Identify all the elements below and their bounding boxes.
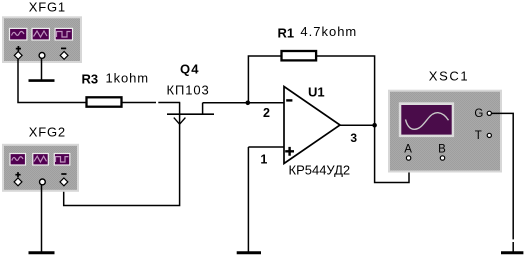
wire Q4 drain to op-amp pin 2	[203, 102, 284, 104]
wire XFG2 common to ground	[41, 185, 43, 252]
svg-text:XFG2: XFG2	[29, 124, 66, 139]
function generator XFG1	[2, 16, 82, 63]
svg-text:Q4: Q4	[180, 62, 200, 77]
svg-text:R1: R1	[278, 26, 295, 41]
wire op-amp pin 1	[248, 146, 284, 148]
junction node (output)	[372, 123, 377, 128]
ground (op-amp pin 1)	[237, 251, 261, 254]
svg-text:2: 2	[263, 106, 270, 120]
svg-text:G: G	[474, 108, 483, 120]
wire XFG1 plus to R3	[18, 60, 86, 103]
ground (XFG2)	[29, 251, 55, 254]
wire pin 1 to ground	[247, 147, 249, 252]
op-amp U1	[284, 87, 340, 164]
ground (XFG1)	[29, 79, 55, 82]
junction node (drain / R1)	[246, 101, 251, 106]
svg-text:1kohm: 1kohm	[106, 70, 150, 85]
wire XSC1 G to ground	[492, 113, 514, 251]
svg-text:XFG1: XFG1	[29, 0, 66, 15]
wire XFG1 common to ground	[41, 59, 43, 81]
oscilloscope XSC1	[388, 90, 502, 173]
svg-text:1: 1	[260, 152, 267, 166]
transistor Q4	[167, 103, 214, 125]
svg-text:КП103: КП103	[167, 82, 210, 97]
wire junction up to R1	[248, 56, 281, 103]
wire Q4 source to XFG2 minus	[64, 115, 180, 206]
wire R1 right to output junction	[317, 56, 375, 125]
svg-text:3: 3	[350, 131, 357, 145]
wire output to XSC1 A	[375, 125, 409, 182]
ground (XSC1 G)	[501, 251, 523, 254]
svg-text:КР544УД2: КР544УД2	[289, 163, 351, 178]
svg-text:A: A	[404, 143, 412, 155]
svg-text:4.7kohm: 4.7kohm	[300, 24, 357, 39]
svg-text:T: T	[475, 130, 482, 142]
wire R3 to Q4 gate	[122, 102, 181, 104]
function generator XFG2	[2, 144, 79, 192]
svg-text:XSC1: XSC1	[429, 69, 469, 84]
resistor R1	[282, 51, 317, 60]
resistor R3	[87, 97, 122, 106]
svg-text:U1: U1	[308, 85, 325, 100]
svg-text:B: B	[438, 143, 446, 155]
svg-text:R3: R3	[82, 72, 99, 87]
wire op-amp output	[340, 124, 375, 126]
